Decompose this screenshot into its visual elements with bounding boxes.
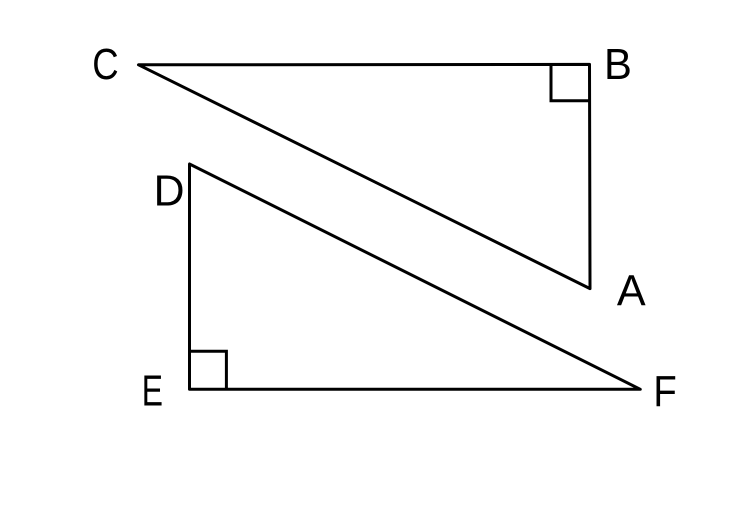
triangle CBA (139, 64, 591, 288)
svg-text:C: C (92, 40, 118, 89)
svg-text:F: F (653, 367, 676, 416)
right angle marker at E (190, 351, 226, 388)
svg-text:B: B (604, 40, 632, 89)
svg-text:E: E (142, 367, 163, 416)
triangle DEF (190, 164, 641, 389)
svg-text:A: A (617, 266, 646, 315)
right angle marker at B (551, 65, 590, 101)
svg-text:D: D (154, 167, 185, 216)
